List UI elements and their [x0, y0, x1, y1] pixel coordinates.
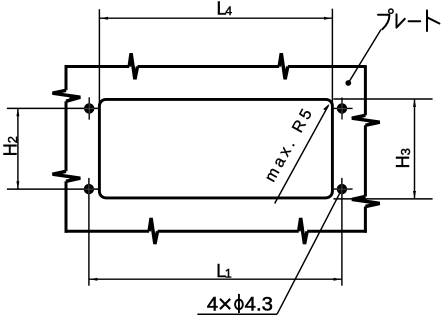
katakana long vowel mark: [409, 20, 421, 22]
label plate (katakana): [378, 9, 439, 31]
katakana TO: [427, 10, 439, 31]
katakana PU: [378, 15, 389, 29]
extension line H3 top: [334, 98, 433, 100]
svg-text:H3: H3: [393, 148, 413, 168]
cutout (inner rounded rectangle): [99, 99, 332, 197]
extension line L1 left (through hole): [88, 178, 90, 286]
phi symbol drawn: [235, 294, 243, 313]
svg-text:max. R5: max. R5: [262, 103, 317, 184]
arrow H2 top: [16, 108, 19, 116]
wire top edge segments: [65, 65, 366, 68]
hole TR: [337, 103, 347, 113]
break mark top-left: [129, 53, 137, 79]
arrow L4 right: [324, 17, 332, 20]
underline under 4x phi 4.3: [197, 313, 277, 315]
hole BR: [337, 184, 347, 194]
centerline hole TR horizontal: [332, 107, 353, 109]
multiply sign drawn: [220, 299, 230, 309]
svg-text:H2: H2: [1, 136, 21, 156]
extension line L4 left: [98, 9, 100, 106]
hole center crosshairs: [89, 97, 352, 189]
break mark right-upper: [352, 115, 380, 125]
katakana RE: [397, 14, 405, 27]
break mark left-lower: [53, 171, 81, 181]
centerline hole TL vertical: [88, 97, 90, 119]
svg-text:L4: L4: [217, 0, 233, 19]
dimension L4 line: [99, 9, 332, 106]
leader for max. R5 with arrowhead: [275, 105, 329, 203]
arrow L4 left: [100, 17, 108, 20]
dimension H2 line: [7, 108, 100, 189]
leader for 4xphi4.3: [277, 189, 342, 314]
dimension L1 line: [89, 178, 342, 286]
extension line H2 bottom: [7, 188, 100, 190]
leader for plate label with dot: [348, 30, 381, 84]
arrow L1 right: [334, 278, 342, 281]
hole TL: [84, 103, 94, 113]
hole BL: [84, 184, 94, 194]
extension line L4 right: [331, 9, 333, 106]
extension line H2 top (through hole centers): [7, 107, 100, 109]
arrow H3 top: [413, 99, 416, 107]
arrow H3 bottom: [413, 191, 416, 199]
break mark bottom-left: [149, 218, 157, 244]
centerline hole TR vertical: [341, 98, 343, 120]
extension line L1 right (through hole): [341, 178, 343, 286]
centerline hole BR horizontal: [332, 188, 353, 190]
arrow H2 bottom: [16, 181, 19, 189]
wire left edge segments: [65, 65, 68, 233]
plate outline (outer rectangle, thick, with break gaps): [65, 65, 367, 233]
svg-text:4: 4: [207, 295, 219, 316]
break mark right-lower: [352, 197, 380, 207]
break mark bottom-right: [299, 218, 307, 244]
break mark top-right: [279, 53, 288, 79]
svg-text:4.3: 4.3: [245, 295, 273, 316]
dimension H3 line: [334, 99, 433, 199]
wire right edge segments: [364, 65, 367, 233]
extension line H3 bottom: [334, 198, 433, 200]
break mark left-upper: [53, 90, 81, 101]
break mark sharp tips (filled): [51, 53, 380, 245]
wire bottom edge segments: [65, 230, 367, 233]
arrow L1 left: [90, 278, 98, 281]
svg-text:L1: L1: [216, 261, 232, 281]
